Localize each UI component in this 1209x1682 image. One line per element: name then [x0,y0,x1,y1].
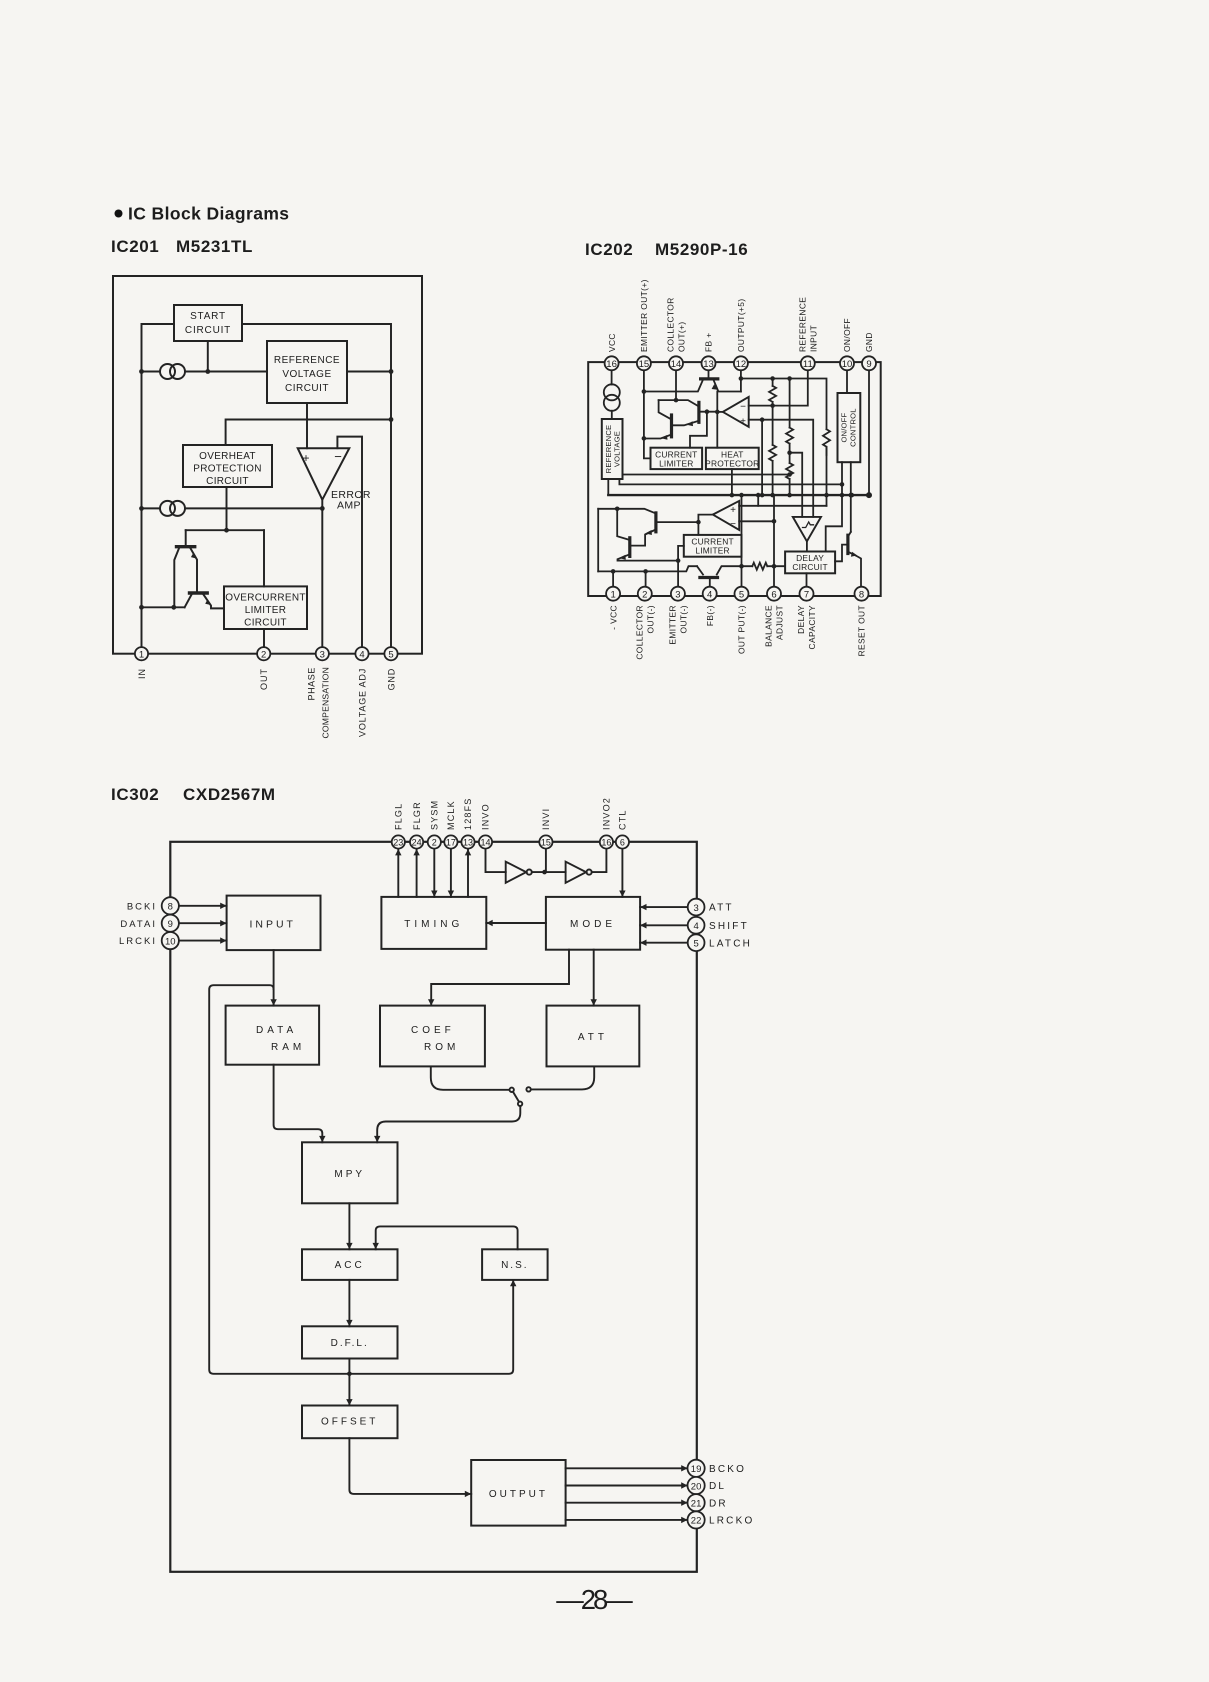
pin 3 EMITTER OUT(-) [671,587,685,601]
svg-text:FLGL: FLGL [394,803,404,830]
transistor QB (above pin4) [697,566,703,574]
wire: on/off bottom right leg to transistor QR [850,462,852,532]
reference voltage box (vertical) [602,419,623,479]
coef rom box [380,1006,485,1067]
wire: data ram to mpy [274,1065,323,1143]
svg-text:6: 6 [620,838,625,848]
svg-text:PROTECTION: PROTECTION [193,464,262,475]
node: pin15 rail lower [642,436,647,441]
transistor QR right [846,535,849,553]
node: in rail CS1 [139,369,144,374]
wire: current source to reference voltage box [611,411,613,419]
svg-text:−: − [730,519,736,530]
svg-text:16: 16 [606,359,617,370]
pin 5 OUT PUT(-) [735,587,749,601]
wire: A2 plus to bus and right rail [739,505,826,507]
svg-text:−: − [334,449,342,464]
wire: overheat bottom to transistor bus [226,487,228,530]
svg-text:ACC: ACC [335,1260,365,1271]
svg-text:COLLECTOR: COLLECTOR [666,297,676,352]
wire: delay right to transistor QR base [835,545,848,562]
wire: mode to att [593,950,595,1006]
svg-text:M5290P-16: M5290P-16 [655,240,748,259]
svg-text:BCKO: BCKO [709,1464,746,1475]
svg-text:RESET OUT: RESET OUT [857,605,867,656]
svg-text:2: 2 [432,838,437,848]
wire: reference voltage right to gnd rail [347,371,391,373]
bus junction dots [739,493,744,498]
pin 6 CTL [616,835,629,848]
switch contact b [526,1087,530,1091]
svg-text:19: 19 [691,1464,702,1475]
wire: A1 output to heat protector rail [717,411,723,413]
svg-text:MCLK: MCLK [446,800,456,830]
wire: ref voltage second tap [619,479,843,484]
IC201 outer boundary box [113,276,422,654]
svg-text:BCKI: BCKI [127,901,157,912]
svg-text:LATCH: LATCH [709,938,752,949]
svg-text:ATT: ATT [709,903,734,914]
wire: current limiter 2 left to pin3 [678,546,684,587]
wire: pin15 rail down to current limiter [644,370,651,458]
wire: mode to coef rom [431,950,569,1006]
svg-text:PROTECTOR: PROTECTOR [705,459,759,469]
svg-text:4: 4 [693,921,698,932]
wire: in rail through CS2 to op-amp output [142,507,323,509]
wire: feedback join to data ram [209,985,513,1374]
wire: pin14 to inverter 1 [486,849,506,873]
wire: emitter rail to top transistor [644,381,703,392]
node: gnd rail overheat [389,417,394,422]
node: pin12 branch [739,376,744,381]
pin 16 INVO2 [600,835,613,848]
transistor Q1 [185,530,187,546]
svg-text:LIMITER: LIMITER [695,546,729,556]
svg-text:IC302: IC302 [111,785,159,804]
svg-text:24: 24 [412,838,422,848]
wire: pin10 to on/off control [846,370,848,393]
pin 22 LRCKO [688,1511,705,1528]
pin 1 IN [135,647,148,660]
wire: transistor bus [186,529,264,531]
svg-text:DATAI: DATAI [120,919,157,930]
wire: timing to pin24 arrow up [416,850,418,897]
node: emitter rail left [139,605,144,610]
svg-text:FB(-): FB(-) [705,605,715,626]
node: emitter rail Q1 [171,605,176,610]
svg-text:10: 10 [165,936,176,947]
resistor R6 horizontal [752,563,767,570]
on/off control box [838,393,861,462]
wire: op-amp output to phase compensation pin [321,500,323,648]
svg-text:3: 3 [675,589,680,600]
wire: pin4 to mode arrow [640,924,688,926]
svg-text:VOLTAGE: VOLTAGE [282,369,331,380]
node: heat protector bottom to bus [731,469,733,495]
pin 19 BCKO [688,1460,705,1477]
svg-text:OUT(+): OUT(+) [677,321,687,352]
svg-text:TIMING: TIMING [404,919,463,930]
wire: output to pin21 [566,1502,688,1504]
svg-text:20: 20 [691,1481,702,1492]
svg-text:DELAY: DELAY [796,605,806,634]
pin 14 INVO [479,835,492,848]
svg-text:CIRCUIT: CIRCUIT [285,383,329,394]
svg-text:EMITTER OUT(+): EMITTER OUT(+) [639,279,649,352]
pin 11 REFERENCE INPUT [801,356,815,370]
wire: coef rom to switch [431,1066,510,1089]
svg-text:INVO: INVO [481,803,491,830]
svg-text:IC Block Diagrams: IC Block Diagrams [128,204,289,224]
svg-text:128FS: 128FS [463,797,473,830]
wire: pin12 down [740,370,742,391]
svg-text:3: 3 [320,649,325,660]
wire: start circuit right to gnd rail [242,324,391,647]
svg-text:OUTPUT(+5): OUTPUT(+5) [736,298,746,352]
svg-text:12: 12 [736,359,747,370]
pin 2 OUT [257,647,270,660]
wire: pin5 rail up to bus [741,495,743,587]
node: start bottom tap [205,369,210,374]
svg-text:6: 6 [771,589,776,600]
pin 13 128FS [461,835,474,848]
node: op-amp output tap [715,410,720,415]
wire: delay to pin7 [806,573,808,586]
svg-text:5: 5 [739,589,744,600]
wire: on/off bottom left leg to delay circuit top [826,462,842,551]
svg-text:OUT(-): OUT(-) [645,605,655,633]
wire: G1 out to node [532,871,566,873]
svg-text:11: 11 [803,359,813,370]
wire: cluster bottom rail through pin2 [598,566,697,571]
main gnd bus [608,494,869,496]
svg-text:N.S.: N.S. [501,1260,528,1271]
node: dfl feedback tap [347,1372,352,1377]
current limiter box top [651,448,703,469]
svg-text:—28—: —28— [556,1584,633,1615]
svg-text:ON/OFF: ON/OFF [840,412,849,442]
wire: offset to output [349,1438,471,1494]
d.f.l. box [302,1326,398,1358]
wire: pin13 node down to heat protector [716,392,718,448]
wire: pin5 to mode arrow [640,942,688,944]
wire: R5 to bus [826,447,828,495]
svg-text:+: + [302,451,309,465]
svg-text:−: − [740,402,746,413]
offset box [302,1406,398,1439]
svg-text:OFFSET: OFFSET [321,1417,378,1428]
svg-text:ON/OFF: ON/OFF [842,318,852,352]
wire: timing to pin13 arrow up [467,850,469,897]
wire: pin9 to input arrow [179,922,227,924]
svg-text:BALANCE: BALANCE [764,605,774,647]
acc box [302,1249,398,1280]
delay circuit box [785,552,835,574]
svg-text:IC201: IC201 [111,237,159,256]
svg-text:17: 17 [446,838,456,848]
resistor R5 [823,429,830,455]
wire: left rail to start circuit [142,324,175,647]
svg-text:START: START [190,311,226,322]
svg-text:MPY: MPY [334,1169,365,1180]
wire: plus tap down to bus [761,420,763,495]
svg-text:14: 14 [671,359,682,370]
pin 4 VOLTAGE ADJ [355,647,368,660]
wire: A1 minus input to pin11 [749,370,808,405]
svg-text:15: 15 [541,838,551,848]
output box [471,1460,565,1526]
wire: pin3 to mode arrow [640,906,688,908]
pin 2 SYSM [428,835,441,848]
wire: pin12 branch to right resistor chain [741,379,827,430]
svg-text:CTL: CTL [618,809,628,830]
svg-text:3: 3 [693,903,698,914]
wire: pin17 to timing arrow down [450,849,452,897]
svg-text:16: 16 [601,838,611,848]
svg-text:ROM: ROM [424,1042,459,1053]
svg-text:8: 8 [168,902,173,913]
svg-text:4: 4 [359,649,364,660]
overcurrent limiter circuit box [224,586,307,629]
node: gnd rail ref [389,369,394,374]
node: output junction [320,506,325,511]
svg-text:CXD2567M: CXD2567M [183,785,276,804]
pin 8 BCKI [162,897,179,914]
pin 21 DR [688,1494,705,1511]
svg-text:2: 2 [642,589,647,600]
svg-text:OUT: OUT [259,668,269,690]
pin 23 FLGL [392,835,405,848]
att box [547,1006,640,1067]
svg-text:CIRCUIT: CIRCUIT [244,618,287,629]
wire: mpy to acc arrow [348,1203,350,1249]
svg-text:DR: DR [709,1498,728,1509]
input box [227,896,321,951]
wire: pin2 up [645,571,647,586]
svg-text:DATA: DATA [256,1025,297,1036]
svg-text:VOLTAGE: VOLTAGE [613,431,622,467]
pin 15 INVI [539,835,552,848]
wire: pin6 rail up to bus [773,495,775,587]
pin 3 PHASE COMPENSATION [316,647,329,660]
svg-text:D.F.L.: D.F.L. [331,1338,369,1349]
transistor Q2 [190,591,208,594]
overheat protection circuit box [183,445,272,487]
svg-text:PHASE: PHASE [307,667,317,701]
pin 5 LATCH [688,934,705,951]
resistor chain R1 R2 [772,379,774,386]
wire: output to pin22 [566,1519,688,1521]
op-amp A1 (points left) [723,397,749,427]
pin 15 EMITTER OUT(+) [637,356,651,370]
pin 14 COLLECTOR OUT(+) [669,356,683,370]
node: plus input tap [760,417,765,422]
svg-text:5: 5 [388,649,393,660]
svg-text:COEF: COEF [411,1025,455,1036]
heat protector box [706,448,759,469]
node: minus input resistor tap [770,403,775,408]
switch arm and pole [513,1092,519,1102]
pin 3 ATT [688,899,705,916]
pin 5 GND [384,647,397,660]
svg-text:IC202: IC202 [585,240,633,259]
wire: pin2 to timing arrow down [433,849,435,897]
svg-text:EMITTER: EMITTER [667,605,677,645]
svg-text:LRCKI: LRCKI [119,936,157,947]
wire: output to pin20 [566,1485,688,1487]
pin 4 SHIFT [688,917,705,934]
wire: third horizontal rail [623,474,790,476]
wire: pin8 to input arrow [179,905,227,907]
lower op-amp A2 [713,501,739,530]
wire: R3 node to schmitt line [790,453,803,517]
svg-text:OUTPUT: OUTPUT [489,1489,548,1500]
svg-text:CIRCUIT: CIRCUIT [185,325,231,336]
svg-text:1: 1 [610,589,615,600]
pin 2 COLLECTOR OUT(-) [638,587,652,601]
wire: A2 minus to pin6 rail [739,520,774,522]
node: INVI tap [542,870,547,875]
svg-text:1: 1 [139,649,144,660]
current source CS2 [160,501,175,516]
svg-text:INVO2: INVO2 [602,797,612,830]
wire: acc to dfl arrow [348,1280,350,1326]
pin 13 FB+ [702,356,716,370]
svg-text:CONTROL: CONTROL [849,408,858,447]
svg-text:ATT: ATT [578,1032,608,1043]
wire: overcurrent limiter to out pin [263,629,265,647]
svg-text:INPUT: INPUT [249,919,296,931]
svg-text:OUT(-): OUT(-) [678,605,688,633]
wire: in rail through CS1 to reference voltage [142,371,268,373]
wire: pin10 to input arrow [179,940,227,942]
wire: switch pole to mpy [377,1106,520,1142]
current source CS3 [604,384,620,400]
svg-text:LIMITER: LIMITER [659,459,693,469]
svg-text:9: 9 [866,359,871,370]
svg-text:15: 15 [639,359,650,370]
svg-text:RAM: RAM [271,1042,305,1053]
pin 12 OUTPUT(+5) [734,356,748,370]
svg-text:COLLECTOR: COLLECTOR [634,605,644,660]
wire: input to data ram [273,950,275,1006]
resistor R4 [786,463,793,479]
svg-text:OVERHEAT: OVERHEAT [199,451,256,462]
svg-text:CIRCUIT: CIRCUIT [206,476,249,487]
schmitt trigger [793,517,821,541]
svg-text:FLGR: FLGR [412,801,422,830]
svg-text:M5231TL: M5231TL [176,237,253,256]
svg-text:INPUT: INPUT [808,325,818,352]
svg-text:SYSM: SYSM [430,800,440,830]
pin 9 GND [862,356,876,370]
svg-text:23: 23 [393,838,403,848]
svg-text:REFERENCE: REFERENCE [274,355,340,366]
inverter G1 [506,862,527,883]
reference voltage circuit box [267,341,347,403]
wire: start circuit bottom tap [207,341,209,372]
svg-text:+: + [730,505,736,516]
node: in rail CS2 [139,506,144,511]
pin 16 VCC [605,356,619,370]
svg-text:7: 7 [804,589,809,600]
n.s. box [482,1249,547,1280]
wire: emitter rail [142,606,185,608]
pin 1 -VCC [606,587,620,601]
svg-text:AMP: AMP [337,500,361,512]
svg-text:LRCKO: LRCKO [709,1516,754,1527]
pin 10 ON/OFF [840,356,854,370]
svg-text:4: 4 [707,589,712,600]
pin 10 LRCKI [162,932,179,949]
wire: pin6 to mode arrow down [621,849,623,897]
svg-text:10: 10 [842,359,853,370]
wire: bus down to overcurrent limiter top [263,530,265,586]
svg-text:IN: IN [137,668,147,679]
svg-text:GND: GND [864,332,874,352]
svg-text:9: 9 [168,919,173,930]
start circuit U-A box [174,305,242,341]
svg-text:CIRCUIT: CIRCUIT [792,562,827,572]
wire: op-amp minus input to voltage adj pin [337,437,362,648]
svg-text:22: 22 [691,1516,702,1527]
svg-text:ADJUST: ADJUST [775,605,785,640]
pin 9 DATAI [162,915,179,932]
svg-text:21: 21 [691,1499,702,1510]
svg-text:VOLTAGE ADJ: VOLTAGE ADJ [358,668,368,737]
svg-text:8: 8 [859,589,864,600]
current limiter box bottom [684,535,742,557]
mode box [546,897,640,950]
resistor chain R3 R4 [789,379,791,428]
transistor cluster QT2 (darlington pair) [675,370,677,400]
pin 17 MCLK [444,835,457,848]
timing box [381,897,486,949]
inverter G2 [566,862,587,883]
wire: schmitt to delay circuit [806,541,808,551]
svg-text:VCC: VCC [607,333,617,352]
pin 6 BALANCE ADJUST [767,587,781,601]
wire: pin16 to current source [611,370,613,384]
svg-text:13: 13 [703,359,714,370]
wire: mode to timing arrow [486,922,546,924]
switch contact a [510,1088,514,1092]
wire: timing to pin23 arrow up [397,850,399,897]
svg-text:SHIFT: SHIFT [709,921,749,932]
svg-text:OUT PUT(-): OUT PUT(-) [737,605,747,654]
svg-text:OVERCURRENT: OVERCURRENT [225,593,306,604]
wire: G2 out to pin16 [592,849,607,873]
pin 4 FB(-) [703,587,717,601]
svg-text:+: + [740,417,746,428]
wire: output to pin19 [566,1467,688,1469]
wire: att to switch [531,1066,594,1089]
svg-text:CAPACITY: CAPACITY [807,605,817,649]
svg-text:INVI: INVI [541,808,551,830]
pin 7 DELAY CAPACITY [800,587,814,601]
wire: pin1 up [612,571,614,586]
node: pin15 rail top [642,389,647,394]
IC302 outer boundary box [170,842,697,1572]
svg-text:MODE: MODE [570,919,616,930]
svg-text:13: 13 [463,838,473,848]
pin 24 FLGR [410,835,423,848]
IC202 outer boundary box [588,362,881,596]
op-amp error amp triangle [298,448,350,500]
svg-text:5: 5 [693,939,698,950]
svg-text:LIMITER: LIMITER [245,605,287,616]
wire: A2 output to current limiter 2 [698,515,712,535]
